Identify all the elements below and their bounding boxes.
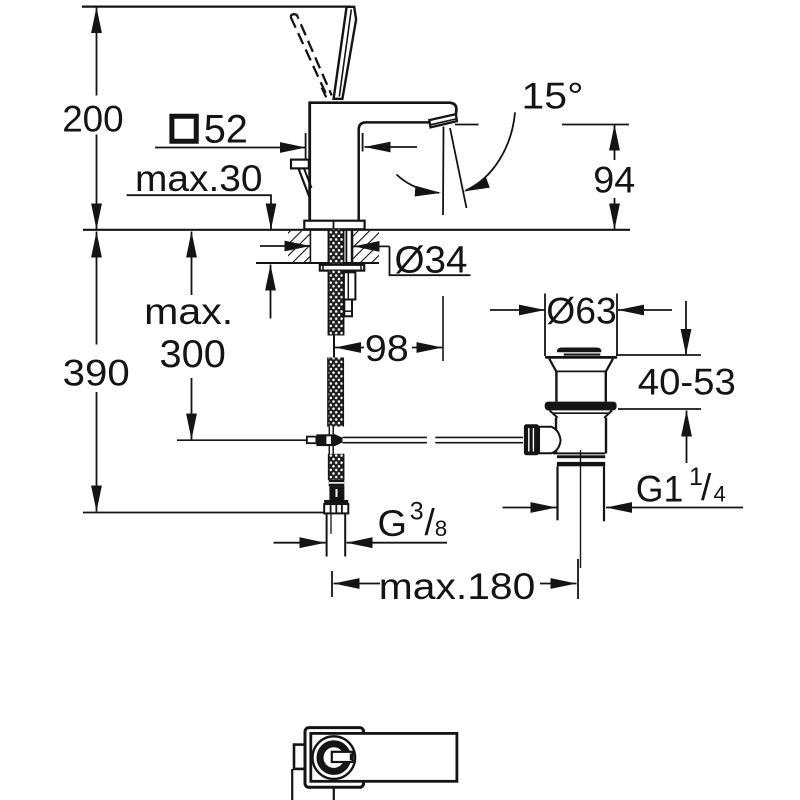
dimension 390 vertical line	[96, 232, 98, 345]
dimension hole left arrow	[260, 245, 311, 247]
faucet threaded shank through deck	[328, 230, 344, 266]
node extension line left of body	[305, 133, 307, 159]
dimension 94 extension line at spout height	[455, 124, 479, 126]
svg-text:G1: G1	[636, 469, 684, 510]
dimension 15 degree arc right with label leader	[466, 112, 516, 190]
svg-text:98: 98	[365, 328, 409, 369]
svg-text:Ø63: Ø63	[546, 291, 617, 332]
linkage coupling block	[316, 434, 335, 446]
drain rubber seal	[545, 402, 617, 411]
node extension line right of body	[362, 133, 364, 152]
flexible hose band lower	[328, 454, 344, 480]
dimension 40-53 arrows	[685, 301, 687, 355]
dimension max.180 arrows	[334, 583, 381, 585]
drain body lower section	[555, 418, 557, 454]
plan view left tab	[294, 745, 306, 769]
deck hatched block right	[353, 231, 380, 262]
dimension G3/8 arrows	[274, 542, 326, 544]
flexible hose band middle	[328, 358, 344, 427]
supply pipe G3/8	[326, 513, 328, 556]
pull rod connector block	[344, 272, 356, 299]
dimension Ø63 extension lines	[544, 294, 546, 357]
deck hatched block left	[288, 231, 310, 262]
hose break thin line	[333, 336, 335, 358]
dimension 94 vertical line	[614, 125, 616, 161]
faucet lever dashed alternate position	[291, 17, 326, 93]
plan view spout rectangle	[311, 733, 457, 781]
faucet lever solid	[334, 7, 357, 99]
svg-text:8: 8	[435, 516, 448, 541]
drain side valve knurled knob	[524, 424, 539, 455]
faucet aerator angled outlet	[429, 114, 457, 127]
dimension G1 1/4 arrows	[503, 507, 557, 509]
dimension max.300 vertical line	[191, 232, 193, 296]
dimension max.180 extension lines	[331, 571, 333, 597]
svg-text:max.180: max.180	[379, 566, 536, 607]
svg-text:4: 4	[714, 482, 726, 507]
pop-up pull rod through deck	[345, 231, 347, 273]
label square-52	[172, 116, 196, 141]
dimension 200 vertical line	[96, 7, 98, 96]
faucet body left edge	[308, 102, 311, 222]
node 15 degree slanted line	[450, 128, 467, 208]
linkage rod left segment	[343, 436, 427, 438]
flexible hose band upper	[328, 271, 344, 336]
wire drop line right	[333, 788, 335, 800]
svg-text:G: G	[378, 503, 408, 544]
svg-text:max.30: max.30	[135, 158, 263, 199]
svg-text:3: 3	[410, 498, 424, 526]
dimension Ø34 leader with right arrow	[354, 245, 390, 247]
linkage rod right segment	[435, 436, 523, 438]
dimension Ø63 arrows	[490, 309, 545, 311]
drain funnel	[549, 359, 556, 372]
svg-text:Ø34: Ø34	[395, 240, 468, 282]
wire deck bottom line	[256, 262, 379, 264]
drain side valve body	[539, 427, 561, 453]
faucet side knob	[291, 160, 309, 169]
faucet spout underside and inner edge with corner radius	[359, 122, 429, 221]
wire 390 bottom reference line	[83, 512, 324, 514]
faucet base plate	[304, 221, 364, 230]
dimension max.30 lower arrow	[270, 265, 272, 319]
wire max.300 bottom reference / linkage rod tail	[177, 439, 307, 441]
wire drop line left	[291, 769, 293, 800]
svg-text:52: 52	[204, 108, 248, 152]
svg-text:300: 300	[160, 333, 226, 376]
drain retaining ring band	[557, 455, 605, 458]
faucet top surface with rounded right corner	[309, 103, 457, 115]
dimension 15 degree arc left	[397, 175, 440, 193]
connection nut G3/8	[324, 500, 348, 504]
wire top reference line	[82, 5, 351, 7]
dimension 98 arrows and label	[335, 347, 364, 349]
drain collar below seal	[550, 410, 558, 417]
node spout vertical extension line	[442, 127, 445, 216]
svg-text:200: 200	[62, 99, 123, 140]
hose wall stubs at rod crossing	[328, 427, 330, 435]
svg-text:15°: 15°	[522, 76, 584, 117]
drain pop-up knob	[557, 348, 601, 353]
dimension max.30 leader underline	[127, 194, 272, 196]
mounting washer	[320, 265, 364, 271]
svg-text:/: /	[701, 467, 712, 508]
dimension 52 line with arrows	[155, 147, 306, 149]
drain tailpipe G1 1/4	[556, 466, 558, 520]
dimension 40-53 extension lines	[616, 354, 701, 356]
wire deck top line	[83, 229, 630, 231]
svg-text:max.: max.	[144, 291, 233, 332]
linkage rod end piece	[307, 437, 317, 444]
svg-text:390: 390	[63, 353, 130, 394]
plan view logo outer circle	[313, 736, 356, 779]
drain flange top	[546, 356, 616, 359]
svg-text:94: 94	[593, 158, 635, 200]
drain body upper section	[555, 371, 557, 401]
drain centerline	[580, 450, 582, 568]
plan view base square	[305, 728, 364, 788]
plan view logo ring	[320, 744, 348, 772]
plan view logo bar	[332, 752, 353, 762]
svg-text:40-53: 40-53	[638, 362, 736, 403]
hose end fitting	[329, 480, 345, 487]
